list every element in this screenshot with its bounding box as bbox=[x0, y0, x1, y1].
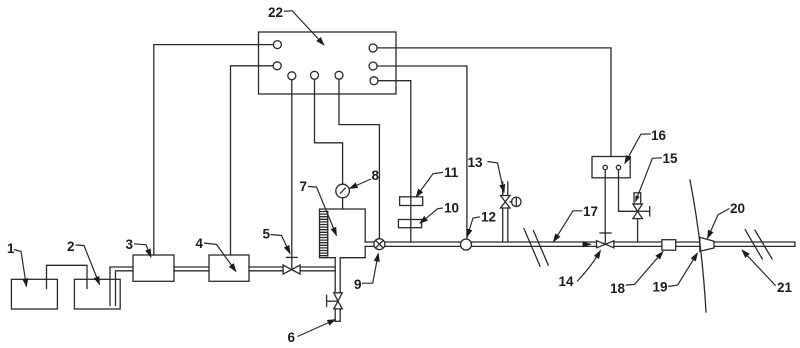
label 2 bbox=[67, 239, 100, 285]
wire transfer pipe between tank 1 and tank 2 bbox=[47, 265, 88, 288]
svg-text:18: 18 bbox=[610, 281, 626, 296]
wire pipe from 4 to valve 5 bbox=[249, 267, 283, 271]
wire main pipe from 9 to 12 bbox=[385, 242, 461, 246]
flow meter 12 bbox=[461, 239, 472, 250]
svg-text:15: 15 bbox=[663, 151, 679, 166]
svg-text:12: 12 bbox=[481, 210, 496, 225]
pipe break symbol 17 bbox=[524, 229, 548, 266]
svg-text:6: 6 bbox=[288, 330, 296, 345]
label 13 bbox=[468, 155, 505, 193]
label 20 bbox=[708, 201, 746, 238]
wire main pipe from 14 to box 18 bbox=[614, 242, 662, 246]
svg-text:10: 10 bbox=[444, 201, 459, 216]
svg-text:1: 1 bbox=[7, 241, 15, 256]
svg-text:11: 11 bbox=[444, 165, 459, 180]
svg-text:22: 22 bbox=[268, 5, 283, 20]
label 17 bbox=[554, 204, 599, 242]
flow direction arrow before valve 14 bbox=[584, 243, 591, 245]
valve 15 with actuator bbox=[633, 193, 650, 242]
valve 14 motor valve bbox=[597, 233, 614, 248]
label 10 bbox=[420, 201, 459, 224]
svg-text:16: 16 bbox=[651, 128, 667, 143]
valve 5 bbox=[283, 257, 300, 274]
label 21 bbox=[742, 250, 793, 295]
sensor 11 bbox=[400, 197, 423, 206]
wire suction dip tube from tank 2 to pump 3 bbox=[110, 267, 133, 306]
control box 22 bbox=[259, 32, 397, 94]
orifice box 18 bbox=[662, 240, 676, 251]
svg-text:20: 20 bbox=[730, 201, 745, 216]
wire main pipe from 12 to valve 14 bbox=[472, 242, 597, 246]
wire control line 22 to sensors 11 and 10 bbox=[378, 81, 411, 242]
label 12 bbox=[467, 210, 496, 238]
wire control line 22 to gauge 8 bbox=[315, 79, 343, 184]
svg-text:3: 3 bbox=[126, 237, 134, 252]
label 3 bbox=[126, 237, 152, 257]
wire control line from 16 to valve 15 bbox=[619, 170, 638, 212]
heater box 7 with heating element bbox=[320, 209, 366, 258]
wire control line from 16 to valve 14 bbox=[604, 170, 606, 233]
wire control line 22 to flow meter 12 bbox=[377, 66, 467, 239]
wire control line 22 to pump 3 bbox=[154, 45, 274, 255]
wire control line 22 to box 4 bbox=[231, 66, 274, 255]
wire main pipe after nozzle to end bbox=[714, 242, 795, 246]
svg-text:7: 7 bbox=[300, 179, 308, 194]
valve 13 with gauge bbox=[501, 182, 522, 208]
pump 9 circle with cross bbox=[374, 239, 385, 250]
svg-text:14: 14 bbox=[559, 274, 575, 289]
wire control line 22 to valve 5 bbox=[291, 80, 293, 258]
label 16 bbox=[625, 128, 667, 164]
label 15 bbox=[636, 151, 679, 202]
svg-text:21: 21 bbox=[777, 280, 793, 295]
label 19 bbox=[653, 253, 698, 295]
pipe break symbol 21 bbox=[745, 230, 772, 259]
svg-text:4: 4 bbox=[196, 236, 204, 251]
wire branch riser to valve 13 bbox=[503, 208, 508, 242]
pump box 3 bbox=[133, 255, 174, 281]
tank 2 bbox=[74, 279, 120, 309]
svg-text:5: 5 bbox=[263, 227, 271, 242]
svg-text:13: 13 bbox=[468, 155, 484, 170]
label 4 bbox=[196, 236, 237, 272]
svg-text:2: 2 bbox=[67, 239, 75, 254]
svg-text:19: 19 bbox=[653, 280, 668, 295]
label 14 bbox=[559, 251, 601, 290]
wire main pipe from 18 to nozzle 20 bbox=[676, 242, 700, 246]
gauge 8 on heater bbox=[336, 184, 350, 209]
wire control line 22 to controller 16 bbox=[377, 48, 611, 157]
label 18 bbox=[610, 252, 663, 297]
label 22 bbox=[268, 5, 324, 45]
wire pipe from valve 5 to heater tee bbox=[300, 267, 335, 271]
wire pipe from 3 to 4 bbox=[174, 267, 209, 271]
svg-text:17: 17 bbox=[583, 204, 598, 219]
wire heater outlet pipe to pump 9 bbox=[365, 242, 374, 246]
controller box 16 bbox=[592, 157, 630, 178]
label 5 bbox=[263, 227, 291, 254]
label 9 bbox=[354, 254, 378, 293]
label 6 bbox=[288, 320, 336, 346]
label 1 bbox=[7, 241, 27, 287]
label 8 bbox=[350, 168, 380, 189]
nozzle 20 bbox=[700, 237, 714, 251]
sensor 10 bbox=[398, 220, 421, 228]
valve 6 drain valve bbox=[327, 293, 343, 322]
tank 1 bbox=[11, 279, 57, 309]
filter box 4 bbox=[209, 255, 249, 281]
wire control line 22 to pump 9 bbox=[339, 79, 379, 238]
label 7 bbox=[300, 179, 337, 236]
wire vertical pipe tee below heater 7 bbox=[335, 258, 340, 293]
label 11 bbox=[416, 165, 459, 197]
svg-text:9: 9 bbox=[354, 277, 362, 292]
svg-text:8: 8 bbox=[372, 168, 380, 183]
furnace wall arc 19 bbox=[690, 180, 706, 312]
